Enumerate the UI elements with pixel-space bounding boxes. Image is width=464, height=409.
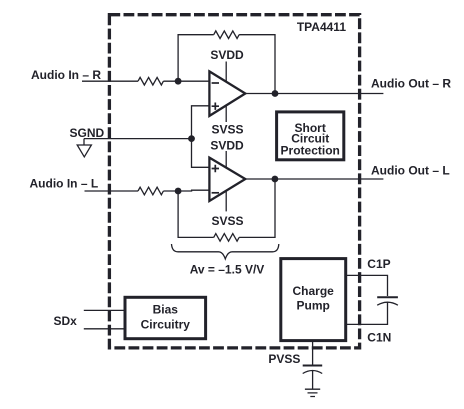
capacitor C1 curved plate (377, 302, 398, 305)
wire resistor to op-amp R inverting input (163, 80, 209, 82)
wire feedback L right (239, 179, 275, 237)
op-amp U2 (L channel) (209, 158, 245, 201)
wire output R (245, 93, 383, 95)
op-amp U2 plus sign (212, 165, 219, 172)
svg-text:PVSS: PVSS (268, 352, 300, 366)
wire SDx lower (84, 328, 125, 330)
svg-text:Charge: Charge (293, 284, 335, 298)
node SGND junction (188, 135, 195, 142)
node output R junction (272, 90, 279, 97)
wire C1N (347, 303, 388, 325)
wire Audio In – L to resistor (85, 190, 139, 192)
block Short Circuit Protection (277, 112, 344, 160)
svg-text:C1P: C1P (367, 257, 390, 271)
op-amp U1 (R channel) (209, 71, 245, 116)
capacitor PVSS curved plate (303, 371, 323, 374)
block Charge Pump (281, 259, 346, 341)
resistor Rin-R (138, 77, 163, 85)
ground SGND symbol (77, 139, 91, 157)
power SVSS (U2) (211, 191, 243, 228)
IC boundary dashed box (109, 15, 359, 348)
node input L junction (175, 188, 182, 195)
ground PVSS (305, 389, 320, 396)
wire SGND to non-inverting inputs (192, 106, 210, 168)
wire SGND (84, 138, 192, 140)
wire output L (245, 178, 383, 180)
wire PVSS cap to ground (312, 371, 314, 389)
svg-text:Pump: Pump (297, 298, 330, 312)
block Bias Circuitry (125, 297, 206, 338)
svg-text:Audio In – L: Audio In – L (30, 176, 99, 190)
resistor feedback R (214, 31, 239, 39)
node input R junction (175, 78, 182, 85)
svg-text:Protection: Protection (281, 144, 340, 158)
svg-text:Audio Out – R: Audio Out – R (371, 76, 451, 90)
svg-text:SVDD: SVDD (210, 138, 244, 152)
svg-text:SVSS: SVSS (211, 214, 243, 228)
svg-text:Av = –1.5 V/V: Av = –1.5 V/V (190, 262, 265, 276)
capacitor PVSS top plate (303, 365, 323, 367)
svg-text:SVDD: SVDD (210, 48, 244, 62)
op-amp U1 minus sign (212, 82, 219, 84)
svg-text:SDx: SDx (54, 314, 78, 328)
capacitor C1 top plate (377, 296, 398, 298)
svg-text:SVSS: SVSS (211, 122, 243, 136)
svg-text:Audio Out – L: Audio Out – L (371, 163, 450, 177)
wire SDx upper (84, 309, 125, 311)
power SVDD (U2) (210, 138, 244, 168)
svg-text:Bias: Bias (153, 302, 179, 316)
resistor Rin-L (138, 187, 163, 195)
wire PVSS (312, 342, 314, 365)
svg-text:Circuitry: Circuitry (141, 318, 191, 332)
svg-text:TPA4411: TPA4411 (297, 20, 346, 34)
wire resistor to op-amp L inverting input (163, 189, 209, 192)
svg-text:SGND: SGND (70, 126, 105, 140)
wire feedback R left+top (178, 35, 214, 81)
op-amp U1 plus sign (212, 103, 219, 110)
wire feedback R right (239, 35, 275, 94)
op-amp U2 minus sign (212, 192, 219, 194)
wire feedback L left+bottom (178, 191, 214, 237)
brace for gain (172, 244, 279, 259)
power SVDD (U1) (210, 48, 244, 82)
svg-text:Audio In – R: Audio In – R (31, 68, 101, 82)
power SVSS (U1) (211, 106, 243, 137)
svg-text:C1N: C1N (367, 330, 391, 344)
wire Audio In – R to resistor (82, 80, 138, 82)
node output L junction (272, 176, 279, 183)
resistor feedback L (214, 234, 239, 242)
wire C1P (347, 275, 388, 296)
